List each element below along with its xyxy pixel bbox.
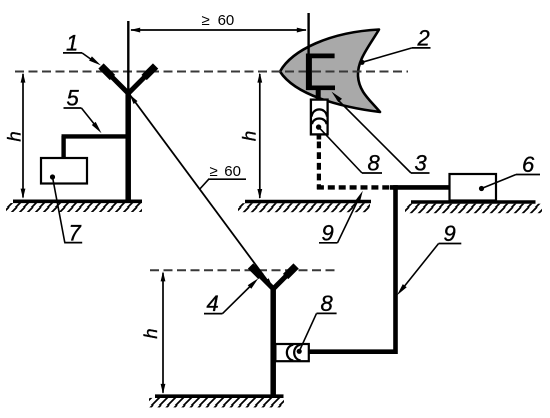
dimension h (upper right) [238, 73, 262, 199]
svg-text:5: 5 [67, 86, 80, 111]
svg-text:h: h [140, 328, 161, 338]
label 1 [63, 30, 101, 65]
ferrite clamp 8 (upper, on vertical cable) [311, 100, 328, 135]
svg-text:1: 1 [66, 30, 78, 55]
label 2 [359, 25, 430, 65]
svg-text:60: 60 [218, 12, 235, 29]
svg-text:3: 3 [415, 151, 428, 176]
label 6 [479, 152, 540, 191]
coupling bracket 3 [306, 54, 335, 101]
label 9 (left, dashed cable) [319, 191, 363, 246]
dimension >=60 (top, between masts) [130, 12, 307, 32]
svg-text:4: 4 [207, 291, 219, 316]
ground (right) [405, 202, 542, 213]
right mast (thin, behind body) [307, 13, 309, 56]
biconical antenna 1 (left, V element) [101, 66, 156, 93]
svg-text:8: 8 [321, 291, 334, 316]
dimension h (lower) [140, 271, 166, 394]
dimension h (upper left) [3, 73, 25, 199]
box 7 (receiver/device) [41, 158, 87, 184]
svg-text:9: 9 [322, 220, 334, 245]
svg-text:≥: ≥ [210, 163, 218, 180]
svg-text:2: 2 [417, 25, 430, 50]
lower antenna mast [270, 287, 276, 397]
svg-text:h: h [238, 131, 259, 141]
diagonal distance line >=60 between antennas [130, 95, 273, 288]
svg-text:9: 9 [444, 221, 456, 246]
label 8 (upper) [316, 124, 382, 175]
biconical antenna 4 (lower, V element) [251, 266, 297, 289]
svg-text:≥: ≥ [202, 12, 210, 29]
ground (middle, under EUT) [238, 202, 371, 213]
label 8 (lower) [297, 291, 337, 354]
box 6 (generator/device) [450, 174, 497, 201]
label 4 [204, 278, 258, 316]
cable 9 dashed section (clamp to junction) [317, 134, 391, 189]
ferrite clamp 8 (lower, on horizontal cable) [275, 344, 308, 361]
label 5 [64, 86, 102, 134]
svg-text:8: 8 [368, 151, 381, 176]
svg-text:6: 6 [522, 152, 535, 177]
ground (upper left) [6, 201, 142, 212]
label 9 (right, solid cable) [397, 221, 461, 295]
cable 9 solid run (junction to box 6 and down to lower clamp) [309, 185, 451, 352]
upper height reference dashed line [15, 71, 408, 73]
equipment under test 2 (grey body) [280, 30, 380, 113]
svg-text:h: h [3, 131, 24, 141]
bracket 5 (antenna feed support) [62, 136, 131, 159]
ground (lower) [149, 396, 284, 407]
svg-text:7: 7 [69, 220, 82, 245]
label 3 [332, 92, 430, 176]
left antenna mast [127, 21, 130, 201]
label 7 [50, 174, 82, 245]
svg-text:60: 60 [224, 163, 241, 180]
lower height reference dashed line [150, 269, 336, 271]
